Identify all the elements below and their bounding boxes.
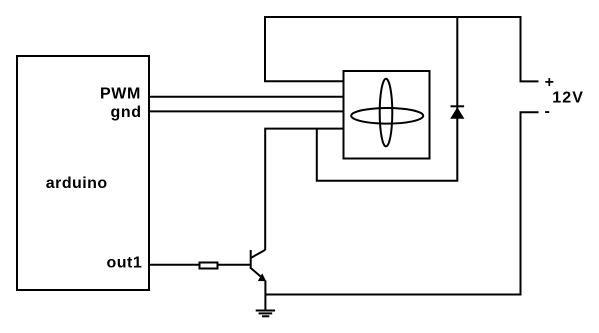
svg-text:PWM: PWM: [100, 86, 141, 103]
svg-text:arduino: arduino: [46, 175, 108, 192]
svg-text:+: +: [545, 74, 554, 91]
svg-text:-: -: [545, 103, 550, 120]
svg-text:12V: 12V: [552, 89, 584, 106]
svg-text:out1: out1: [107, 254, 143, 271]
svg-text:gnd: gnd: [110, 104, 141, 121]
